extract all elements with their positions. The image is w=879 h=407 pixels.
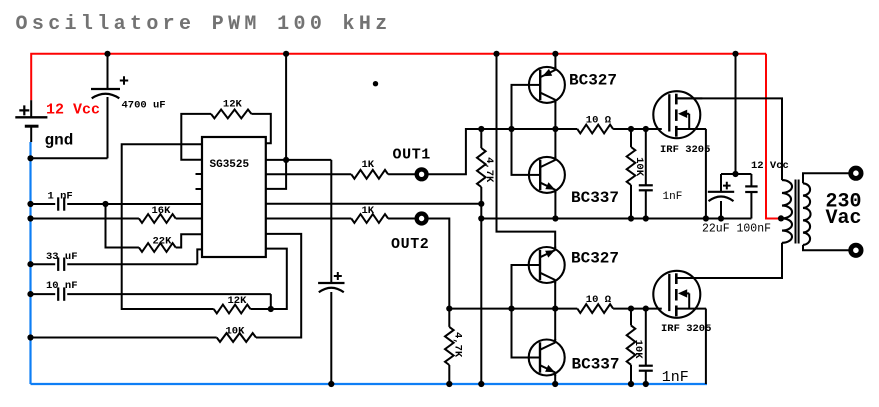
node 1nF row junction <box>102 201 108 207</box>
node blue rail 10nF row <box>27 291 33 297</box>
label SG3525 <box>210 159 250 171</box>
node rail1 q2e <box>552 215 558 221</box>
capacitor C8 100nF <box>745 174 757 219</box>
node blue rail 10K row <box>27 334 33 340</box>
transistor Q4 BC337 <box>529 339 565 376</box>
transistor U3 IRF3205 (lower) <box>653 271 706 318</box>
node blue rail 4.7K-2 <box>446 381 452 387</box>
node gate2 c <box>552 306 558 312</box>
resistor 16K <box>139 214 176 223</box>
node stray dot <box>373 81 378 86</box>
svg-text:12K: 12K <box>228 295 248 307</box>
wire 4.7K-2 chain <box>448 309 450 384</box>
capacitor C1 4700uF <box>91 89 120 98</box>
label 4700 uF <box>122 100 166 112</box>
wire 10nF row to 12K junction <box>31 294 271 309</box>
svg-text:33 uF: 33 uF <box>46 251 78 263</box>
node Vcc pin junction <box>283 157 289 163</box>
label + C7 <box>723 182 731 190</box>
resistor 4.7K (lower) <box>445 327 454 365</box>
wire pin OUT2 lead <box>266 218 352 220</box>
svg-text:22K: 22K <box>153 235 173 247</box>
svg-text:gnd: gnd <box>45 132 74 150</box>
transistor Q1 BC327 <box>529 66 565 103</box>
label BC327 lower <box>571 250 619 268</box>
wire Q4 collector <box>554 309 556 340</box>
transformer T1 primary upper winding <box>782 180 792 218</box>
node gate1 d <box>628 126 634 132</box>
label 12K (top) <box>223 98 243 110</box>
wire 10K-1 leads <box>630 129 632 219</box>
capacitor C5 electrolytic <box>318 283 344 292</box>
svg-text:10K: 10K <box>632 340 644 360</box>
wire Q3 collector <box>554 282 556 309</box>
svg-text:10 Ω: 10 Ω <box>586 294 612 306</box>
transistor Q3 BC327 <box>529 247 565 284</box>
resistor 22K <box>139 243 176 252</box>
wire gate line 1 <box>481 128 662 130</box>
wire M2 drain to transformer <box>678 243 782 278</box>
node OUT2 terminal <box>417 214 427 224</box>
node blue rail 10k2 <box>628 381 634 387</box>
label 1K (OUT2) <box>362 205 375 217</box>
wire BC327-1 emitter <box>554 54 556 68</box>
capacitor C3 33uF <box>58 258 64 271</box>
transformer T1 secondary winding <box>803 183 811 245</box>
wire M1 drain to transformer <box>678 98 782 180</box>
svg-text:12K: 12K <box>223 98 243 110</box>
node gate1 e <box>643 126 649 132</box>
label BC337 lower <box>572 355 620 373</box>
node red rail riser2 <box>493 51 499 57</box>
node gate2 a <box>446 306 452 312</box>
node gate1 b <box>508 126 514 132</box>
resistor 12K discharge <box>214 305 251 314</box>
node rail1 22uF <box>718 215 724 221</box>
label gnd <box>45 132 74 150</box>
node blue rail C5 <box>328 381 334 387</box>
node red rail Vcc riser <box>283 51 289 57</box>
pin stub left 4 <box>196 188 203 190</box>
label + C5 <box>334 272 342 280</box>
resistor 10K (gate upper) <box>627 147 636 185</box>
wire secondary bottom lead <box>803 245 851 250</box>
label 12 Vcc (battery, red) <box>46 101 100 118</box>
label 10K gate upper <box>633 157 645 177</box>
wire source rail upper <box>481 218 751 220</box>
node 230Vac terminal top <box>851 168 861 178</box>
battery B1 <box>15 100 47 142</box>
svg-text:4,7K: 4,7K <box>451 332 463 358</box>
wire 12K row to pin (right) <box>250 249 286 309</box>
label IRF 3205 lower <box>661 323 711 335</box>
wire caps top line <box>721 54 751 174</box>
wire Vcc pin to C5 <box>266 160 332 283</box>
node blue rail / C1 <box>27 155 33 161</box>
svg-text:Vac: Vac <box>826 207 862 230</box>
label 10K gate lower <box>632 340 644 360</box>
label 22uF 100nF <box>702 222 771 235</box>
label 1nF lower <box>662 369 689 386</box>
resistor 12K feedback <box>211 110 251 119</box>
svg-text:1nF: 1nF <box>662 369 689 386</box>
svg-text:4700 uF: 4700 uF <box>122 100 166 112</box>
capacitor C9 1nF (lower) <box>639 366 653 371</box>
wire gate line 2 <box>449 308 662 310</box>
svg-text:1K: 1K <box>362 205 375 217</box>
resistor 10K (gate lower) <box>627 325 636 364</box>
wire +12V red top rail <box>31 54 766 100</box>
svg-text:BC337: BC337 <box>571 189 619 207</box>
resistor 1K (OUT1) <box>351 170 388 179</box>
wire 4700uF cap branch <box>31 54 108 159</box>
svg-text:Oscillatore PWM 100 kHz: Oscillatore PWM 100 kHz <box>16 13 392 36</box>
wire 1K to OUT2 terminal <box>388 218 417 220</box>
node 4.7K-1 / source rail <box>478 215 484 221</box>
node gate1 a <box>478 126 484 132</box>
wire ground blue bottom rail <box>31 383 708 385</box>
node 230Vac terminal bottom <box>851 245 861 255</box>
label 22K <box>153 235 173 247</box>
label 10 nF <box>46 280 78 292</box>
node gate2 b <box>508 306 514 312</box>
node blue rail 1nF row <box>27 201 33 207</box>
svg-text:4,7K: 4,7K <box>483 157 495 183</box>
svg-text:IRF 3205: IRF 3205 <box>660 144 710 156</box>
svg-text:1K: 1K <box>362 159 375 171</box>
node rail1 m1src <box>703 215 709 221</box>
capacitor C7 22uF <box>708 174 734 219</box>
svg-text:BC337: BC337 <box>572 355 620 373</box>
node blue rail 33uF row <box>27 261 33 267</box>
wire Q2 emitter to source rail <box>554 192 556 219</box>
wire 16K row (pin2) <box>31 218 203 220</box>
op-amp U1 SG3525 box <box>202 137 266 257</box>
node 4.7K-1 / pin row <box>478 201 484 207</box>
label 1 nF <box>48 190 73 202</box>
label 10 Ohm upper <box>586 114 612 126</box>
resistor 10 Ohm (upper) <box>577 125 613 134</box>
wire 1K to OUT1 terminal <box>388 173 417 175</box>
node caps top junction <box>732 171 738 177</box>
node gate1 c <box>552 126 558 132</box>
transistor Q2 BC337 <box>529 156 565 193</box>
wire secondary top lead <box>803 173 851 183</box>
label 1K (OUT1) <box>362 159 375 171</box>
title text <box>16 13 392 36</box>
node blue rail c9 <box>643 381 649 387</box>
node transformer center tap <box>778 215 784 221</box>
svg-text:OUT2: OUT2 <box>391 236 429 253</box>
svg-text:IRF 3205: IRF 3205 <box>661 323 711 335</box>
wire 10K row (pin6 RT) <box>31 234 302 338</box>
resistor 4.7K (upper) <box>477 148 486 187</box>
svg-text:SG3525: SG3525 <box>210 159 250 171</box>
node blue rail q4e <box>552 381 558 387</box>
transformer T1 core <box>796 180 799 244</box>
node gate2 e <box>643 306 649 312</box>
wire C5 to ground <box>330 292 332 384</box>
wire +12 riser to lower driver <box>497 54 556 248</box>
wire OUT2 to gate line 2 <box>427 219 450 309</box>
svg-text:OUT1: OUT1 <box>393 146 431 163</box>
wire pin OUT1 lead <box>266 173 352 175</box>
label 16K <box>152 205 172 217</box>
wire +12 riser to Vcc/Vc pins <box>266 54 286 189</box>
node 12K/10nF junction <box>268 306 274 312</box>
node red rail caps riser <box>732 51 738 57</box>
wire 1nF row (pin5) <box>31 203 203 205</box>
label BC337 upper <box>571 189 619 207</box>
node blue rail 16K row <box>27 215 33 221</box>
svg-text:10K: 10K <box>633 157 645 177</box>
svg-text:1nF: 1nF <box>663 191 683 203</box>
resistor 10 Ohm (lower) <box>577 304 613 313</box>
label 12K (bottom) <box>228 295 248 307</box>
label BC327 upper <box>569 71 617 89</box>
wire 1nF-node to 22K row <box>106 204 139 248</box>
svg-text:16K: 16K <box>152 205 172 217</box>
wire 12K top loop <box>181 114 270 160</box>
label OUT2 <box>391 236 429 253</box>
svg-text:BC327: BC327 <box>569 71 617 89</box>
pin stub left 3 <box>196 173 203 175</box>
label 4,7K lower <box>451 332 463 358</box>
label IRF 3205 upper <box>660 144 710 156</box>
wire M2 source to ground <box>705 309 707 384</box>
capacitor C6 1nF (upper) <box>639 185 653 190</box>
node rail1 1nf <box>643 215 649 221</box>
wire Q4 emitter to ground <box>554 375 556 384</box>
wire Q1 collector to gate line <box>554 102 556 129</box>
label 10 Ohm lower <box>586 294 612 306</box>
svg-text:10 Ω: 10 Ω <box>586 114 612 126</box>
node red rail / C1 <box>104 51 110 57</box>
wire C6 leads <box>645 129 647 219</box>
capacitor C4 10nF <box>58 287 64 300</box>
wire 4.7K-1 chain <box>480 129 482 384</box>
wire pin1 to 12K bottom row <box>122 144 214 309</box>
transformer T1 primary lower winding <box>782 218 792 242</box>
wire pin row to 4.7K-1 bottom <box>266 203 482 205</box>
wire M1 source to rail <box>705 129 707 219</box>
resistor 10K timing <box>217 333 256 342</box>
wire bases riser upper <box>512 85 530 175</box>
resistor 1K (OUT2) <box>351 214 388 223</box>
wire +12V red right drop to transformer center tap <box>766 54 780 219</box>
label 230 Vac <box>826 190 862 230</box>
node rail1 10k <box>628 215 634 221</box>
node gate2 d <box>628 306 634 312</box>
wire Q2 collector <box>554 129 556 158</box>
wire 22K to pin (left) <box>176 234 202 247</box>
label 4,7K upper <box>483 157 495 183</box>
wire ground blue left rail <box>29 142 31 384</box>
node red rail BC327-1 <box>552 51 558 57</box>
node blue rail 4.7K-1 <box>478 381 484 387</box>
capacitor C2 1nF <box>58 197 64 210</box>
label + C1 <box>120 76 128 84</box>
label 1nF upper <box>663 191 683 203</box>
wire C9 leads <box>645 309 647 384</box>
label 33 uF <box>46 251 78 263</box>
node OUT1 terminal <box>417 169 427 179</box>
wire bases riser lower <box>512 265 530 358</box>
svg-text:10K: 10K <box>226 326 246 338</box>
svg-text:12 Vcc: 12 Vcc <box>46 101 100 118</box>
svg-text:BC327: BC327 <box>571 250 619 268</box>
svg-text:1 nF: 1 nF <box>48 190 73 202</box>
svg-text:22uF 100nF: 22uF 100nF <box>702 222 771 235</box>
svg-text:10 nF: 10 nF <box>46 280 78 292</box>
wire 10K-2 leads <box>630 309 632 384</box>
wire OUT1 to gate line 1 <box>427 129 482 174</box>
wire 33uF row (soft-start) <box>31 249 203 264</box>
label 10K <box>226 326 246 338</box>
label OUT1 <box>393 146 431 163</box>
label 12 Vcc (right) <box>751 160 789 172</box>
transistor U2 IRF3205 (upper) <box>653 91 706 138</box>
svg-text:12 Vcc: 12 Vcc <box>751 160 789 172</box>
